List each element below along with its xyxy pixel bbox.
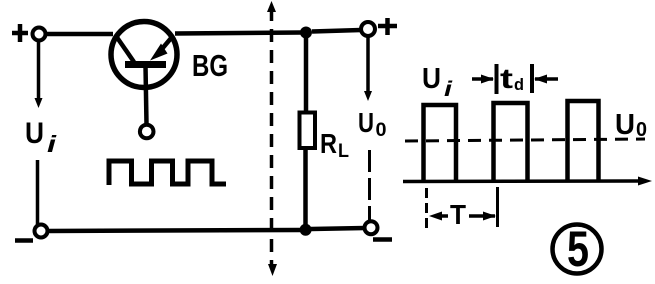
output terminal bottom xyxy=(365,221,378,234)
input square-wave symbol xyxy=(109,161,226,185)
svg-text:L: L xyxy=(338,141,349,162)
terminal + (input top) xyxy=(12,24,28,42)
td measurement xyxy=(472,64,558,94)
output voltage arrow xyxy=(364,36,372,101)
input terminal bottom xyxy=(35,225,48,238)
figure number 5 xyxy=(553,221,602,277)
svg-text:R: R xyxy=(320,128,337,159)
T measurement xyxy=(427,187,498,228)
svg-text:U: U xyxy=(358,107,374,138)
svg-text:T: T xyxy=(450,199,466,230)
svg-text:5: 5 xyxy=(567,221,589,277)
terminal - (output bottom) xyxy=(373,237,392,242)
pulse 2 xyxy=(494,103,528,182)
wire top-right xyxy=(312,30,361,32)
resistor RL xyxy=(300,113,316,149)
wire resistor top lead xyxy=(304,38,309,114)
node (top junction) xyxy=(300,27,312,39)
wire bottom-right xyxy=(311,228,365,229)
svg-text:U: U xyxy=(25,117,44,150)
svg-text:t: t xyxy=(500,63,513,94)
svg-text:i: i xyxy=(47,131,57,157)
wire resistor bottom lead xyxy=(303,148,308,225)
terminal + (output top) xyxy=(378,18,397,35)
svg-text:0: 0 xyxy=(376,120,387,141)
time axis xyxy=(403,177,652,186)
svg-text:U: U xyxy=(422,63,441,95)
wire output lower xyxy=(368,150,371,222)
separation dashed line xyxy=(267,1,277,276)
base terminal circle xyxy=(140,125,154,139)
input voltage arrow xyxy=(35,41,43,108)
node (bottom junction) xyxy=(300,224,312,236)
svg-text:0: 0 xyxy=(636,119,647,141)
transistor BG xyxy=(111,22,177,125)
pulse 3 xyxy=(568,101,599,182)
svg-text:BG: BG xyxy=(192,48,228,83)
output terminal top xyxy=(361,22,375,36)
svg-text:U: U xyxy=(615,109,635,141)
wire top-middle xyxy=(175,33,302,34)
wire top-left xyxy=(45,32,113,37)
svg-text:d: d xyxy=(514,75,524,94)
wire bottom rail xyxy=(48,230,300,231)
input terminal top xyxy=(33,28,46,41)
U0 level dashed line xyxy=(405,139,645,141)
terminal - (input bottom) xyxy=(15,238,33,243)
wire left-lower xyxy=(36,160,40,225)
pulse 1 xyxy=(424,105,457,182)
